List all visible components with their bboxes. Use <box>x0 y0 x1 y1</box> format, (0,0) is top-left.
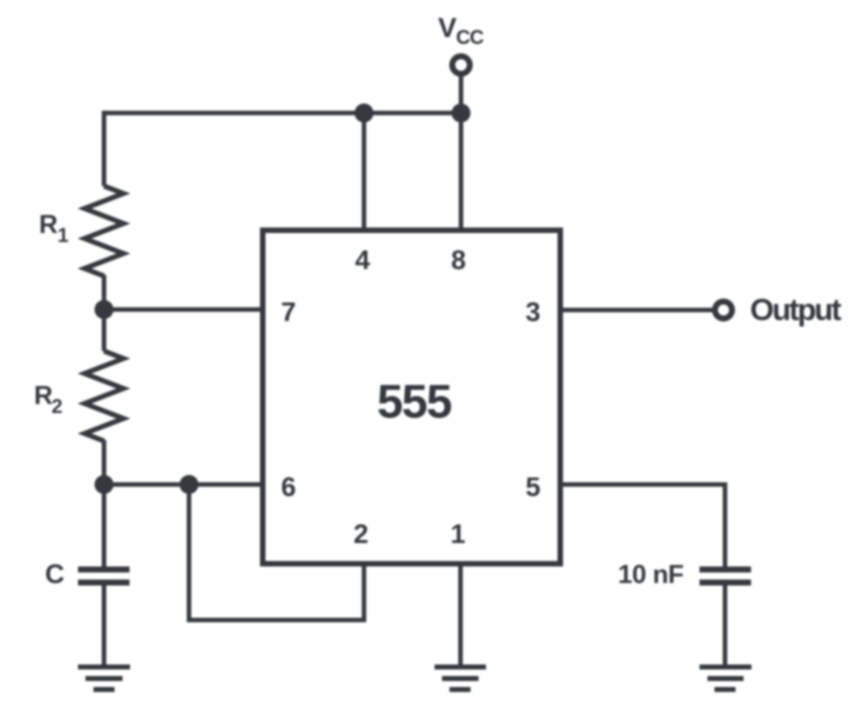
svg-text:R: R <box>34 380 53 410</box>
svg-text:2: 2 <box>353 519 368 549</box>
svg-text:6: 6 <box>281 472 296 502</box>
svg-text:10 nF: 10 nF <box>618 559 683 589</box>
svg-text:3: 3 <box>525 297 540 327</box>
svg-text:8: 8 <box>451 245 466 275</box>
svg-text:V: V <box>438 12 457 43</box>
svg-text:CC: CC <box>456 27 484 49</box>
svg-text:R: R <box>39 209 58 239</box>
svg-text:7: 7 <box>281 297 296 327</box>
svg-text:4: 4 <box>355 245 370 275</box>
svg-text:Output: Output <box>750 292 841 327</box>
svg-text:1: 1 <box>58 225 69 247</box>
svg-text:555: 555 <box>377 375 451 428</box>
svg-text:5: 5 <box>525 472 540 502</box>
svg-text:C: C <box>45 559 65 589</box>
svg-text:2: 2 <box>52 396 63 418</box>
svg-text:1: 1 <box>450 519 465 549</box>
